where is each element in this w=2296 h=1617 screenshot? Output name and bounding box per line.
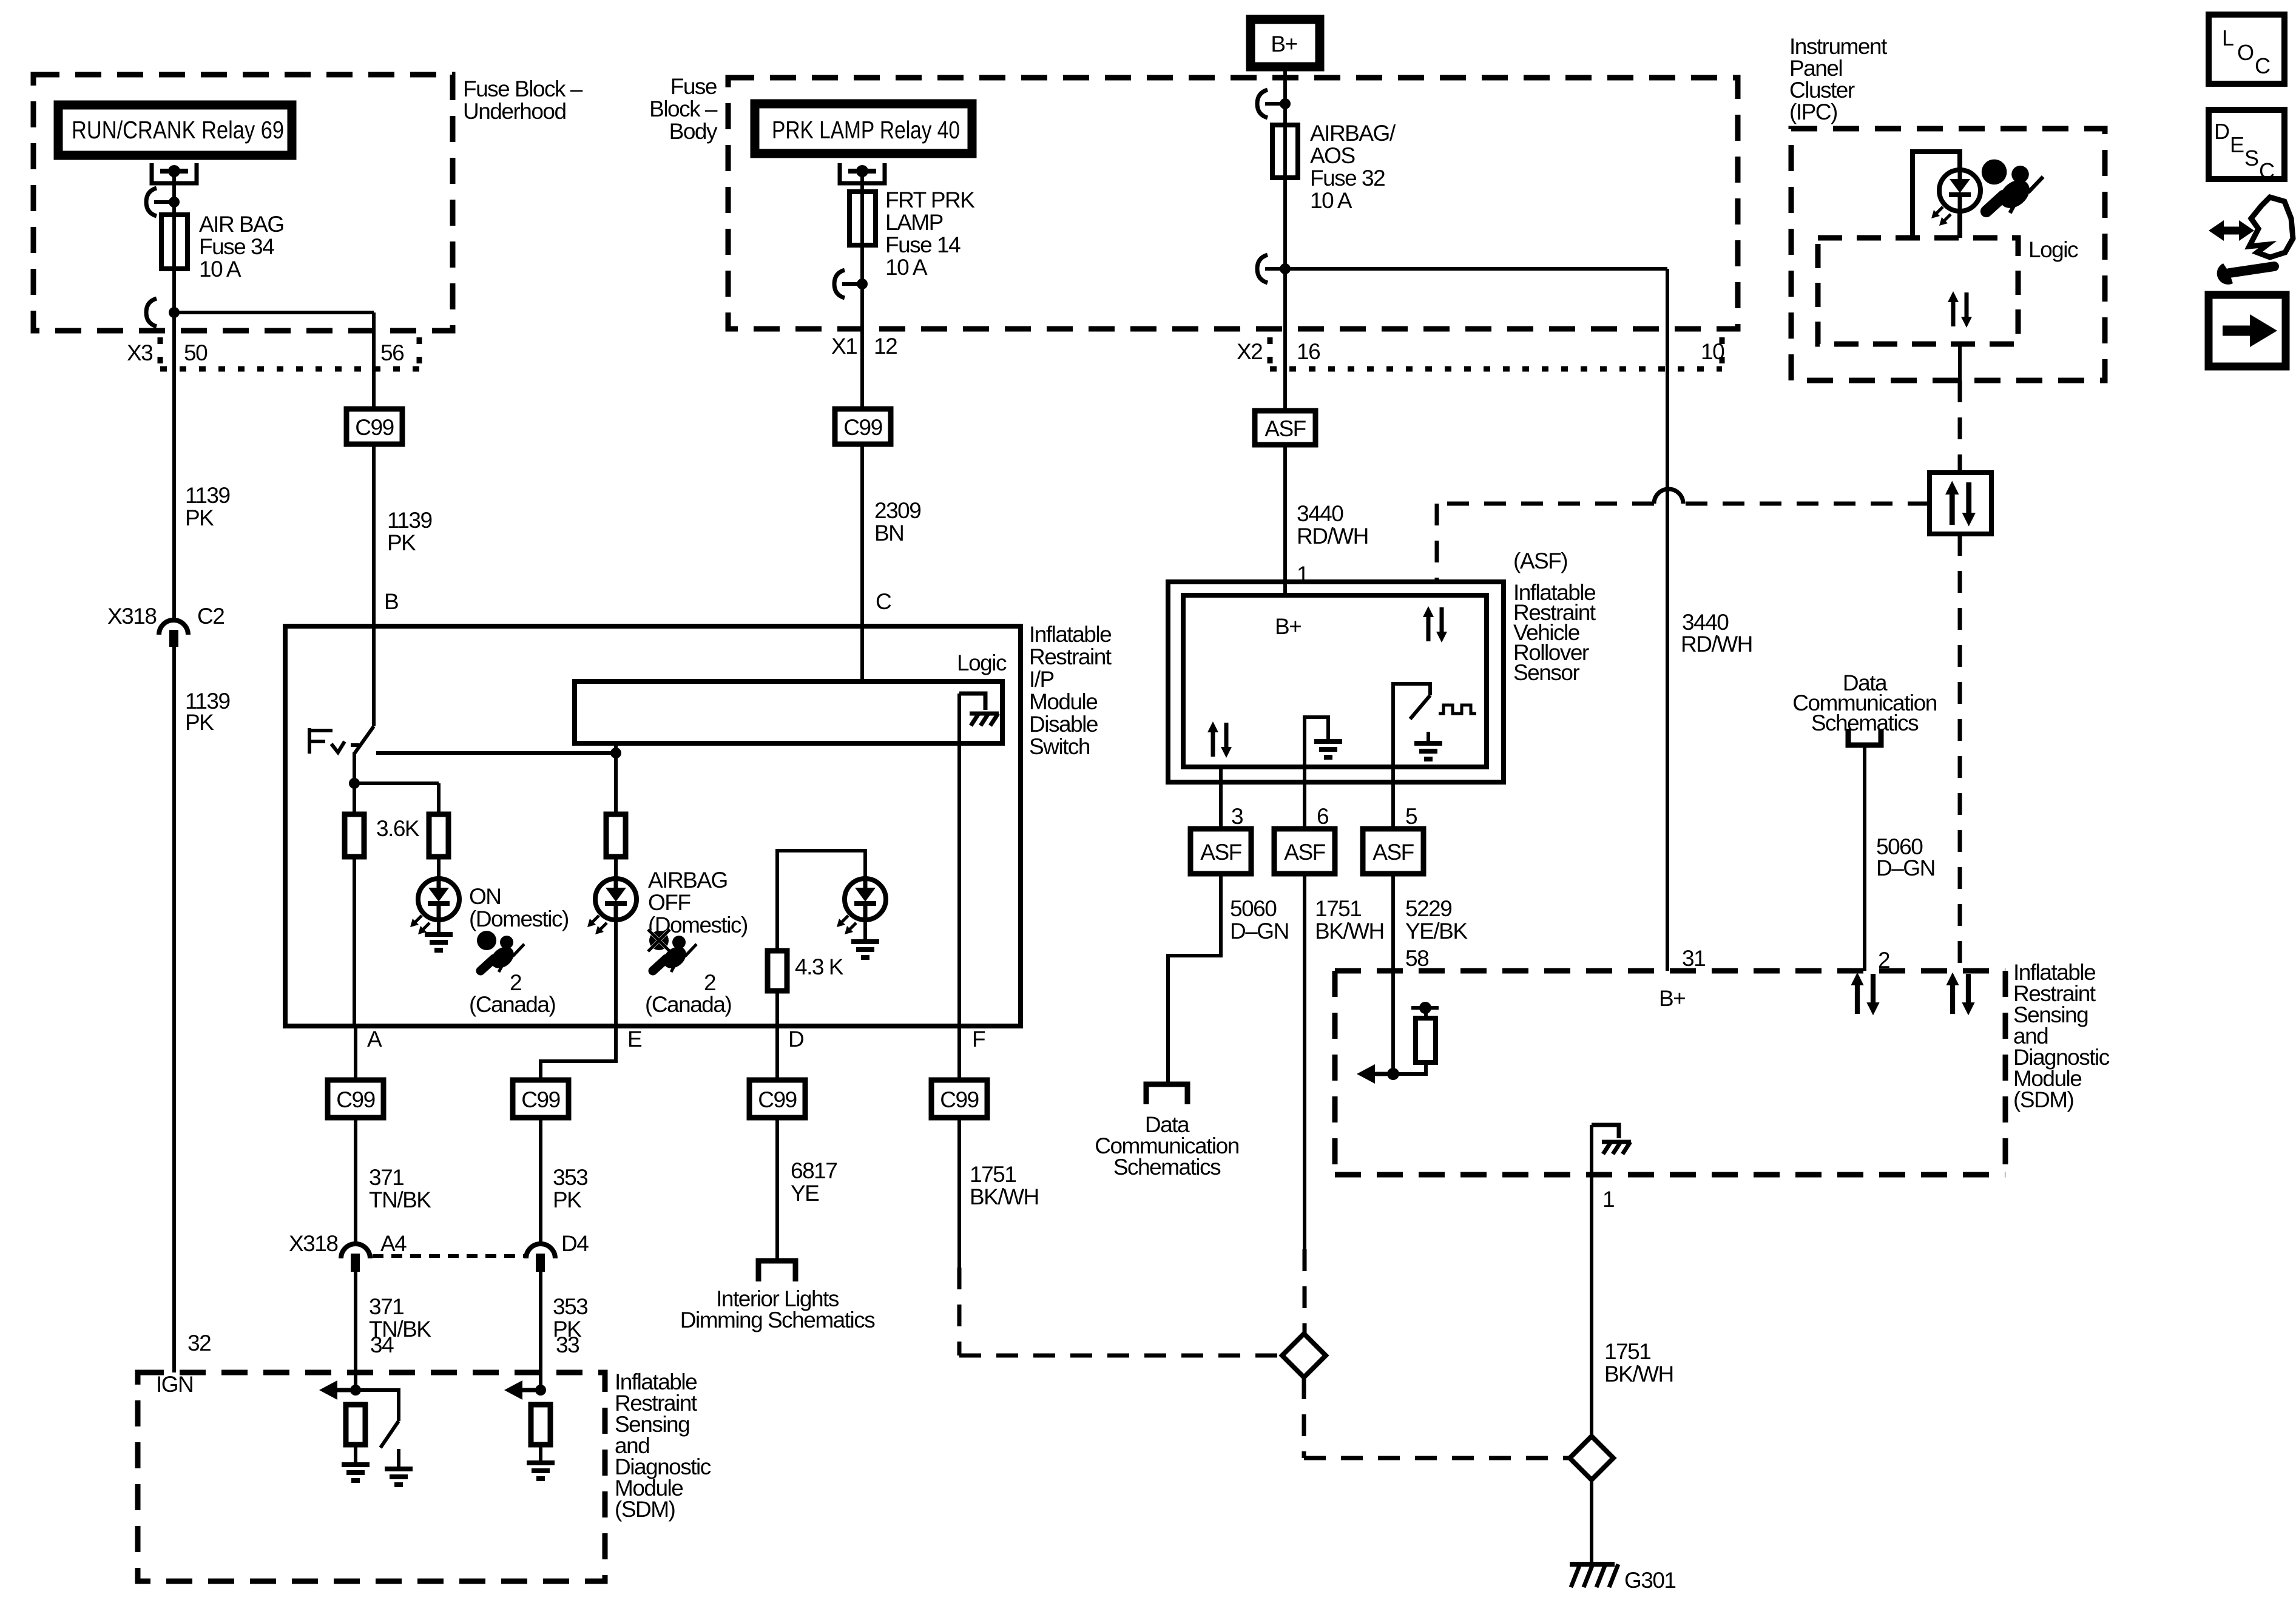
svg-text:F: F [972,1027,985,1052]
svg-text:C: C [2255,53,2271,78]
svg-text:Schematics: Schematics [1113,1155,1221,1180]
svg-text:4.3 K: 4.3 K [795,954,844,979]
svg-text:34: 34 [370,1332,394,1357]
svg-text:5229: 5229 [1405,896,1451,921]
svg-text:BN: BN [874,521,903,545]
svg-text:Logic: Logic [2028,237,2078,262]
svg-text:AOS: AOS [1310,143,1355,168]
svg-text:31: 31 [1682,946,1705,971]
svg-text:56: 56 [380,340,403,365]
svg-text:1139: 1139 [387,508,432,533]
svg-text:C99: C99 [336,1087,374,1112]
svg-text:C99: C99 [940,1087,978,1112]
svg-text:AIRBAG/: AIRBAG/ [1310,121,1396,146]
svg-text:PK: PK [387,530,416,555]
svg-text:X3: X3 [127,340,152,365]
svg-text:6: 6 [1317,804,1328,829]
svg-text:33: 33 [556,1332,579,1357]
svg-text:PRK LAMP Relay 40: PRK LAMP Relay 40 [772,116,960,144]
svg-text:1139: 1139 [185,483,230,508]
svg-text:50: 50 [184,340,208,365]
svg-text:Panel: Panel [1789,56,1842,81]
svg-text:RUN/CRANK Relay 69: RUN/CRANK Relay 69 [72,116,284,144]
svg-text:D: D [788,1027,803,1052]
svg-text:Body: Body [669,119,718,144]
svg-text:Block –: Block – [649,96,718,121]
svg-text:16: 16 [1297,339,1320,364]
svg-text:1751: 1751 [970,1162,1016,1187]
svg-text:C99: C99 [355,415,393,440]
svg-text:PK: PK [185,710,214,735]
svg-text:2: 2 [704,970,715,995]
svg-text:BK/WH: BK/WH [1604,1362,1673,1386]
svg-text:D4: D4 [561,1231,589,1256]
svg-text:E: E [2230,132,2244,157]
svg-text:(Canada): (Canada) [469,992,555,1017]
svg-text:Schematics: Schematics [1811,711,1919,735]
svg-text:D–GN: D–GN [1230,919,1289,944]
svg-text:AIR BAG: AIR BAG [199,212,284,237]
svg-text:B+: B+ [1659,986,1685,1011]
svg-text:C99: C99 [521,1087,559,1112]
svg-text:IGN: IGN [156,1372,193,1397]
svg-text:1: 1 [1602,1187,1614,1212]
svg-text:Fuse 32: Fuse 32 [1310,166,1385,191]
svg-text:(SDM): (SDM) [615,1497,675,1522]
svg-text:3440: 3440 [1297,501,1343,526]
svg-text:Cluster: Cluster [1789,78,1855,103]
svg-text:LAMP: LAMP [885,210,943,235]
svg-text:58: 58 [1405,946,1428,971]
svg-text:(Domestic): (Domestic) [469,906,569,931]
svg-text:D–GN: D–GN [1876,856,1935,880]
svg-text:B+: B+ [1275,614,1301,639]
svg-text:3.6K: 3.6K [376,816,420,841]
svg-text:C2: C2 [197,604,224,629]
svg-text:X1: X1 [831,334,857,359]
svg-text:E: E [627,1027,642,1052]
svg-text:ASF: ASF [1373,840,1414,865]
svg-text:Logic: Logic [957,650,1007,675]
svg-text:Dimming Schematics: Dimming Schematics [680,1308,875,1332]
svg-text:PK: PK [553,1187,582,1212]
svg-text:5060: 5060 [1230,896,1277,921]
svg-text:B: B [384,589,398,614]
svg-text:353: 353 [553,1294,587,1319]
svg-text:3440: 3440 [1682,610,1729,635]
svg-text:ASF: ASF [1200,840,1241,865]
svg-text:FRT PRK: FRT PRK [885,187,975,212]
svg-text:OFF: OFF [648,890,690,915]
svg-text:A: A [367,1027,382,1052]
svg-text:O: O [2237,40,2254,65]
svg-text:X318: X318 [289,1231,337,1256]
svg-text:(SDM): (SDM) [2013,1087,2074,1112]
svg-text:B+: B+ [1271,32,1297,56]
svg-text:371: 371 [369,1165,403,1190]
svg-text:C: C [876,589,891,614]
svg-text:Fuse 14: Fuse 14 [885,232,961,257]
svg-text:3: 3 [1231,804,1243,829]
svg-text:Fuse Block –: Fuse Block – [463,76,583,101]
svg-text:C99: C99 [843,415,882,440]
svg-text:YE: YE [791,1181,819,1206]
svg-text:ON: ON [469,884,501,909]
svg-text:YE/BK: YE/BK [1405,919,1468,944]
svg-text:RD/WH: RD/WH [1297,524,1368,549]
svg-text:Instrument: Instrument [1789,34,1888,59]
svg-text:G301: G301 [1624,1568,1676,1593]
svg-text:AIRBAG: AIRBAG [648,868,728,893]
svg-text:Fuse 34: Fuse 34 [199,234,274,259]
svg-text:ASF: ASF [1264,416,1306,441]
svg-text:Inflatable: Inflatable [1029,622,1111,647]
svg-text:Sensor: Sensor [1513,660,1579,685]
svg-text:S: S [2244,146,2259,170]
svg-text:10 A: 10 A [885,255,928,280]
svg-text:L: L [2222,25,2234,50]
svg-text:1751: 1751 [1604,1339,1650,1364]
svg-text:2309: 2309 [874,498,920,523]
svg-text:Underhood: Underhood [463,99,566,124]
svg-text:I/P: I/P [1029,667,1054,692]
svg-text:C: C [2259,158,2275,183]
svg-text:D: D [2214,119,2230,144]
svg-text:BK/WH: BK/WH [970,1184,1039,1209]
svg-text:X318: X318 [107,604,156,629]
svg-text:(IPC): (IPC) [1789,100,1837,124]
svg-text:TN/BK: TN/BK [369,1187,431,1212]
svg-text:371: 371 [369,1294,403,1319]
svg-text:RD/WH: RD/WH [1681,632,1752,657]
svg-text:32: 32 [187,1331,211,1355]
svg-text:X2: X2 [1237,339,1262,364]
svg-text:1751: 1751 [1315,896,1361,921]
svg-text:Restraint: Restraint [1029,644,1112,669]
svg-text:Module: Module [1029,689,1097,714]
svg-text:Switch: Switch [1029,734,1090,759]
svg-text:6817: 6817 [791,1158,837,1183]
svg-text:A4: A4 [380,1231,407,1256]
svg-text:10: 10 [1701,339,1724,364]
svg-text:Fuse: Fuse [670,74,717,99]
svg-text:Disable: Disable [1029,712,1098,737]
svg-text:C99: C99 [758,1087,796,1112]
svg-text:ASF: ASF [1284,840,1325,865]
svg-text:353: 353 [553,1165,587,1190]
svg-text:10 A: 10 A [199,257,241,282]
svg-text:BK/WH: BK/WH [1315,919,1384,944]
svg-text:2: 2 [510,970,521,995]
svg-text:2: 2 [1878,948,1889,973]
svg-text:(ASF): (ASF) [1513,549,1567,573]
svg-text:10 A: 10 A [1310,188,1352,213]
svg-text:PK: PK [185,505,214,530]
svg-text:12: 12 [874,334,897,359]
svg-text:5: 5 [1405,804,1417,829]
svg-text:(Canada): (Canada) [645,992,731,1017]
